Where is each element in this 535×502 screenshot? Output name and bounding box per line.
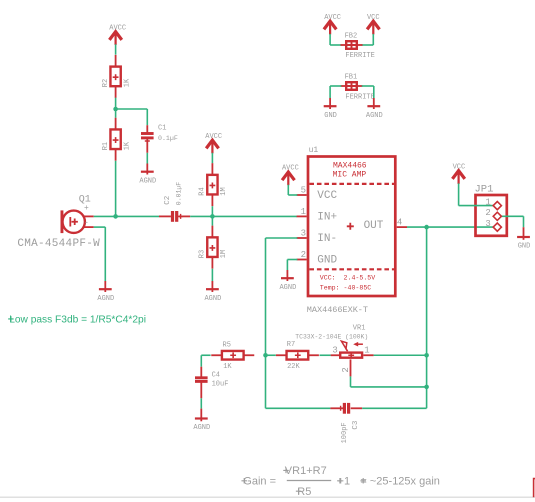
svg-text:C2: C2 (164, 196, 172, 205)
label U1 title MAX4466 (333, 161, 367, 170)
wire R1 to mic junction (115, 161, 117, 217)
svg-text:5: 5 (301, 185, 306, 195)
wire VCC to JP1 pin1 (459, 183, 498, 205)
pin JP1-1 diamond (493, 202, 501, 210)
wire feedback node down to C3 (266, 355, 331, 408)
pin GND name (317, 255, 337, 267)
label R2 name (102, 79, 110, 87)
svg-text:IN-: IN- (317, 233, 337, 245)
wire AVCC to pin 5 (288, 185, 297, 195)
node wiper junction (424, 385, 429, 390)
wire AVCC to FB2 (330, 34, 341, 45)
power VCC (FB2 right) (367, 14, 380, 34)
wire AVCC to R2 (115, 44, 117, 54)
ferrite bead FB2 (341, 41, 363, 49)
label C4 value 10uF (212, 381, 229, 389)
label R2 value 1K (123, 78, 131, 87)
power AVCC (above R4) (205, 133, 222, 153)
wire C4 to AGND (200, 398, 202, 408)
pin OUT name (364, 220, 384, 232)
pin JP1-2 diamond (493, 212, 501, 220)
pin number JP1-2 (485, 208, 490, 218)
resistor R4 (207, 163, 217, 206)
note gain formula numerator VR1+R7 (285, 465, 327, 477)
node junction R4/R3/C2/IN+ (210, 214, 215, 219)
pin number VR1-2 (341, 367, 351, 372)
svg-text:= ~25-125x gain: = ~25-125x gain (360, 476, 440, 488)
pin number JP1-1 (485, 198, 490, 208)
op-amp U1 MAX4466 body (308, 157, 395, 297)
resistor R7 (276, 351, 319, 360)
pin 1 IN+ stub (297, 215, 307, 217)
svg-text:C1: C1 (158, 125, 166, 133)
pin 5 VCC stub (297, 194, 307, 196)
wire C3 to OUT column bottom (362, 407, 426, 409)
svg-text:AGND: AGND (193, 424, 210, 432)
wire feedback node to R5 (266, 354, 276, 356)
svg-text:2: 2 (341, 367, 351, 372)
wire FB2 to VCC (362, 34, 374, 45)
pin VCC name (317, 190, 337, 202)
svg-text:1K: 1K (223, 363, 232, 371)
svg-text:3: 3 (301, 228, 306, 238)
svg-text:Temp: -40-85C: Temp: -40-85C (320, 285, 371, 292)
svg-text:AGND: AGND (139, 177, 156, 185)
label JP1 (475, 184, 494, 196)
note gain formula result (360, 476, 440, 488)
wire R2 to junction to R1 (115, 98, 117, 118)
note gain formula: Gain = (243, 476, 276, 488)
ground AGND (IC pin2) (279, 270, 296, 292)
node VR1 pin1 junction (424, 353, 429, 358)
frame red border piece (534, 479, 535, 498)
label Q1 pin - (84, 219, 89, 228)
power VCC (JP1) (452, 164, 465, 184)
svg-text:10uF: 10uF (212, 381, 229, 389)
power AVCC (FB2 left) (324, 14, 341, 34)
label U1 (309, 146, 319, 155)
svg-text:IN+: IN+ (317, 211, 337, 223)
note low pass formula (9, 315, 146, 326)
wire pin3 IN- to feedback node (266, 238, 298, 355)
svg-text:1: 1 (301, 207, 306, 217)
ground AGND (FB1 right) (366, 98, 383, 120)
svg-text:JP1: JP1 (475, 184, 494, 196)
wire junction to C1 (115, 109, 148, 125)
svg-text:FERRITE: FERRITE (345, 52, 374, 60)
svg-text:GND: GND (317, 255, 337, 267)
pin 3 number (301, 228, 306, 238)
svg-text:0.01µF: 0.01µF (176, 182, 183, 206)
label U1 title MIC AMP (333, 171, 367, 180)
wire junction to C2 (116, 215, 159, 217)
wire R3 to AGND (211, 269, 213, 281)
pin number JP1-3 (485, 219, 490, 229)
label C1 value 0.1uF (158, 135, 178, 142)
ground GND (FB1 left) (324, 98, 337, 120)
wire mic+ to junction (94, 215, 116, 217)
ferrite bead FB1 (341, 82, 363, 90)
svg-text:+: + (84, 204, 89, 213)
label R1 value 1K (123, 141, 131, 150)
pin 2 number (301, 250, 306, 260)
svg-text:AGND: AGND (204, 295, 221, 303)
svg-text:Gain =: Gain = (243, 476, 276, 488)
label C2 value 0.01uF (176, 182, 183, 206)
wire FB1 to AGND (362, 86, 374, 98)
capacitor C3 (330, 403, 362, 414)
svg-text:u1: u1 (309, 146, 319, 155)
capacitor C4 (195, 367, 208, 399)
svg-text:VCC: VCC (453, 164, 466, 172)
wire R4 to junction B (211, 206, 213, 216)
wire AVCC to R4 (211, 153, 213, 163)
svg-text:R7: R7 (287, 341, 295, 349)
svg-text:AVCC: AVCC (205, 133, 222, 141)
label Q1 (79, 195, 91, 206)
wire pin2 GND to AGND (287, 260, 297, 271)
ground AGND (below mic) (97, 281, 114, 303)
svg-text:CMA-4544PF-W: CMA-4544PF-W (17, 238, 100, 250)
pin IN- name (317, 233, 337, 245)
microphone Q1 (61, 210, 94, 233)
wire OUT to JP1 pin3 (407, 226, 497, 228)
label C2 name (164, 196, 172, 205)
svg-text:1: 1 (485, 198, 490, 208)
svg-text:1K: 1K (123, 141, 131, 150)
power AVCC (top-left, above R2) (109, 25, 126, 45)
label FB2 (345, 32, 358, 40)
svg-text:OUT: OUT (364, 220, 384, 232)
label R3 name (199, 250, 207, 258)
label FB2 FERRITE (345, 52, 374, 60)
pin IN+ name (317, 211, 337, 223)
svg-text:2: 2 (301, 250, 306, 260)
svg-text:-: - (84, 219, 89, 228)
node mic/R1/C2 junction (113, 214, 118, 219)
pin number VR1-3 (332, 346, 337, 356)
label C3 value 100pF (341, 422, 349, 443)
label U1 part MAX4466EXK-T (307, 305, 368, 315)
wire junction B to IC pin IN+ (212, 215, 297, 217)
svg-text:2: 2 (485, 208, 490, 218)
svg-text:VCC: 2.4-5.5V: VCC: 2.4-5.5V (320, 275, 375, 282)
svg-text:MIC AMP: MIC AMP (333, 171, 367, 180)
node junction R1/R2/C1 (113, 107, 118, 112)
svg-text:AGND: AGND (279, 284, 296, 292)
resistor R5 (211, 351, 254, 360)
capacitor C2 (159, 211, 190, 222)
wire VR1 wiper to OUT column (351, 376, 427, 387)
svg-text:22K: 22K (287, 363, 300, 371)
svg-text:VR1: VR1 (353, 325, 366, 333)
label Q1 value CMA-4544PF-W (17, 238, 100, 250)
svg-text:4: 4 (397, 218, 402, 228)
svg-text:Low pass F3db = 1/R5*C4*2pi: Low pass F3db = 1/R5*C4*2pi (9, 315, 146, 326)
svg-text:R5: R5 (223, 341, 231, 349)
label U1 spec VCC 2.4-5.5V (320, 275, 375, 282)
svg-text:TC33X-2-104E (100K): TC33X-2-104E (100K) (295, 333, 368, 340)
svg-text:FB1: FB1 (345, 73, 358, 81)
label R3 value 1M (220, 250, 228, 258)
note gain formula +1 (338, 476, 351, 488)
svg-text:R5: R5 (297, 486, 311, 498)
label R1 name (102, 142, 110, 150)
wire R5 to C4 corner (201, 355, 210, 366)
svg-text:VCC: VCC (367, 14, 380, 22)
power AVCC (IC pin5) (282, 165, 299, 186)
svg-text:C3: C3 (352, 420, 360, 430)
label R4 name (199, 187, 207, 195)
svg-text:GND: GND (518, 243, 531, 251)
svg-text:MAX4466: MAX4466 (333, 161, 367, 170)
pin JP1-3 diamond (493, 223, 501, 231)
capacitor C1 (141, 125, 154, 153)
note gain formula fraction bar (287, 480, 331, 482)
pin 1 number (301, 207, 306, 217)
svg-text:AVCC: AVCC (324, 14, 341, 22)
svg-text:3: 3 (332, 346, 337, 356)
label R5 value 1K (223, 363, 232, 371)
svg-text:1M: 1M (220, 187, 228, 195)
pin 3 IN- stub (297, 237, 307, 239)
svg-text:GND: GND (324, 112, 337, 120)
wire mic- to AGND (94, 227, 106, 281)
wire R7 to VR1 pin3 (320, 354, 331, 356)
text origin crosses (8, 316, 366, 494)
resistor R3 (207, 216, 217, 268)
potentiometer VR1 (331, 341, 374, 376)
ground AGND (below C4) (193, 409, 210, 433)
pin 4 OUT stub (397, 226, 407, 228)
pin number VR1-1 (364, 346, 369, 356)
svg-text:VCC: VCC (317, 190, 337, 202)
svg-text:AVCC: AVCC (282, 165, 299, 173)
svg-text:R4: R4 (199, 187, 207, 195)
svg-text:R1: R1 (102, 142, 110, 150)
ground AGND (below R3) (204, 281, 221, 303)
svg-text:FB2: FB2 (345, 32, 358, 40)
svg-text:100pF: 100pF (341, 422, 349, 443)
wire FB1 to GND (330, 86, 341, 98)
label VR1 value TC33X-2-104E (100K) (295, 333, 368, 340)
resistor R1 (110, 118, 120, 161)
wire C1 to AGND (146, 153, 148, 164)
svg-text:VR1+R7: VR1+R7 (285, 465, 327, 477)
svg-text:R3: R3 (199, 250, 207, 258)
wire C2 to junction B (190, 215, 212, 217)
svg-text:0.1µF: 0.1µF (158, 135, 178, 142)
svg-text:AVCC: AVCC (109, 25, 126, 33)
label C1 name (158, 125, 166, 133)
wire VR1 pin1 to OUT column (374, 354, 427, 356)
svg-text:1M: 1M (220, 250, 228, 258)
svg-text:1: 1 (364, 346, 369, 356)
label VR1 (353, 325, 366, 333)
note gain formula denominator R5 (297, 486, 311, 498)
svg-text:MAX4466EXK-T: MAX4466EXK-T (307, 305, 368, 315)
label R4 value 1M (220, 187, 228, 195)
wire OUT junction down feedback column (426, 227, 428, 408)
frame bottom gray line (0, 496, 535, 498)
svg-text:R2: R2 (102, 79, 110, 87)
ground AGND (below C1) (139, 164, 156, 186)
node feedback junction (pin3/R5/R7... ) (263, 353, 268, 358)
label FB1 (345, 73, 358, 81)
svg-text:AGND: AGND (97, 295, 114, 303)
svg-text:AGND: AGND (366, 112, 383, 120)
pin 2 GND stub (297, 259, 307, 261)
label C4 name (212, 371, 220, 379)
label C3 name (352, 420, 360, 430)
label FB1 FERRITE (345, 94, 374, 102)
label R5 name (223, 341, 231, 349)
label Q1 pin + (84, 204, 89, 213)
node OUT junction (424, 225, 429, 230)
svg-text:1K: 1K (123, 78, 131, 87)
svg-text:3: 3 (485, 219, 490, 229)
pin 4 number (397, 218, 402, 228)
pin 5 number (301, 185, 306, 195)
ground GND (JP1 pin2) (517, 227, 530, 250)
connector JP1 body (476, 195, 507, 236)
label U1 spec Temp -40-85C (320, 285, 371, 292)
svg-text:FERRITE: FERRITE (345, 94, 374, 102)
label R7 value 22K (287, 363, 300, 371)
resistor R2 (110, 55, 120, 98)
wire JP1 pin2 to GND (497, 216, 523, 227)
label R7 name (287, 341, 295, 349)
svg-text:C4: C4 (212, 371, 220, 379)
